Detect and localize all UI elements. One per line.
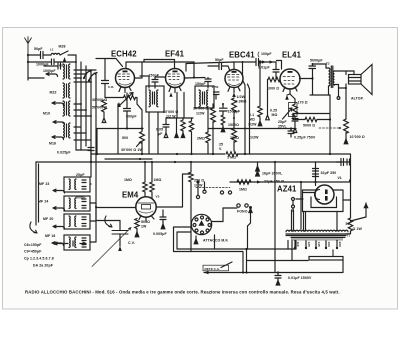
IF transformer 2: [195, 86, 214, 108]
tube ECH42: [116, 69, 135, 93]
node mains junctions: [242, 271, 279, 273]
svg-text:M22: M22: [50, 91, 57, 95]
capacitor 25uF electrolytic: [278, 119, 298, 133]
resistor 50000ohm: [92, 100, 107, 123]
svg-text:300pF: 300pF: [75, 196, 86, 200]
svg-text:100pF: 100pF: [261, 52, 272, 56]
wire EBC41 right vertical: [243, 81, 245, 154]
switch contact arrow 1: [46, 73, 58, 77]
wire T1 primary feed: [300, 182, 302, 229]
tube AZ41: [315, 185, 335, 204]
svg-text:C6=150pF: C6=150pF: [24, 243, 42, 247]
wire EF41 bypass leg: [175, 118, 178, 138]
svg-text:V.: V.: [219, 147, 222, 151]
wire MF block left riser: [36, 162, 39, 225]
resistor 50ohm 1W: [346, 218, 363, 234]
svg-text:50’000 Ω: 50’000 Ω: [92, 106, 107, 110]
switch contact arrow MF23: [53, 189, 65, 193]
svg-text:RETE C.A.: RETE C.A.: [205, 267, 220, 271]
wire MF block right connections: [90, 162, 96, 242]
wire EBC41 anode top rail: [234, 62, 256, 70]
wire fono down: [248, 213, 251, 250]
svg-text:1/2 W: 1/2 W: [166, 115, 176, 119]
wire EL41 anode to T2: [300, 64, 331, 95]
inductor M19 coil: [43, 101, 70, 116]
label 25V: [219, 143, 223, 152]
resistor 250ohm EBC41 cathode: [230, 118, 259, 154]
wire EL41 screen riser: [277, 61, 282, 70]
wire mains cord B: [177, 232, 296, 273]
svg-text:MF 23: MF 23: [39, 182, 49, 186]
svg-text:500pF: 500pF: [126, 115, 137, 119]
capacitor 500pF: [124, 93, 138, 129]
svg-text:M16: M16: [49, 142, 56, 146]
svg-text:1000 Ω: 1000 Ω: [267, 87, 279, 91]
svg-text:T2: T2: [326, 62, 330, 66]
svg-text:C9=450pF: C9=450pF: [24, 250, 42, 254]
switch contact arrow 4: [52, 136, 64, 140]
svg-text:VL: VL: [338, 176, 343, 180]
antenna: [25, 37, 32, 55]
ground arrow ECH42 cathode: [117, 102, 121, 107]
variable capacitor C.V.: [112, 221, 135, 251]
mechanical dashed link fono: [196, 187, 230, 189]
switch rotor curved arrow left: [30, 222, 37, 233]
transformer T1 taps: [294, 241, 342, 250]
svg-text:μF: μF: [158, 132, 163, 136]
svg-text:1MΩ: 1MΩ: [154, 178, 162, 182]
node EBC41 verticals: [222, 103, 235, 119]
svg-text:160: 160: [327, 242, 331, 247]
voltage selector bar: [247, 240, 343, 273]
arrow B+ output: [351, 203, 368, 221]
AZ41 shield box: [303, 190, 344, 212]
svg-text:30’000 Ω: 30’000 Ω: [193, 107, 208, 111]
tube EL41: [280, 69, 300, 94]
capacitor 32+32uF electrolytic: [313, 159, 351, 186]
wire decoupling horizontal: [208, 128, 296, 130]
svg-text:EM4: EM4: [122, 191, 139, 200]
svg-text:EF41: EF41: [165, 50, 185, 59]
IF coil box MF16: [64, 235, 90, 250]
svg-text:T1: T1: [347, 234, 351, 238]
svg-text:125: 125: [307, 242, 311, 247]
switch arrows band selector top: [83, 70, 97, 82]
tube EBC41: [225, 70, 243, 93]
switch contact arrow MF20: [53, 225, 65, 229]
capacitor 0.025uF: [57, 148, 94, 163]
wire right vertical to rectifier: [350, 154, 352, 218]
svg-text:Ω 1W: Ω 1W: [353, 227, 363, 231]
transformer T1 secondary comb: [291, 234, 350, 241]
svg-text:L1: L1: [50, 48, 54, 52]
svg-text:1750: 1750: [212, 85, 219, 89]
wire mains cord A: [174, 227, 244, 273]
tube EF41: [166, 69, 185, 97]
capacitor C.R.: [96, 59, 123, 98]
svg-text:25: 25: [219, 143, 223, 147]
wire socket to chassis: [214, 235, 216, 249]
wire EBC41 diode vertical 2: [248, 84, 250, 154]
wire IF1 secondary return: [149, 112, 158, 154]
node EL41 anode junction: [311, 77, 313, 79]
capacitor 1000pF (second): [43, 63, 65, 73]
wire T2 secondary to speaker: [335, 71, 355, 119]
svg-text:1MΩ: 1MΩ: [124, 178, 132, 182]
svg-text:10’000 Ω: 10’000 Ω: [350, 135, 365, 139]
IF coil box MF24: [64, 196, 90, 211]
svg-text:V3: V3: [156, 195, 160, 199]
wire EM4 cathode left: [96, 207, 136, 209]
wire IF2 secondary down: [207, 108, 209, 132]
resistor 0.1Mohm diode load: [248, 61, 262, 127]
svg-text:220: 220: [338, 242, 342, 247]
resistor 0.3Mohm EBC41: [232, 95, 247, 118]
resistor EF41 screen dropper: [189, 118, 193, 155]
svg-text:EL41: EL41: [282, 51, 302, 60]
svg-text:1 MΩ: 1 MΩ: [227, 156, 236, 160]
wire IF1 primary top: [140, 76, 149, 88]
node decoupling junctions: [212, 128, 246, 130]
trimmer DA arrows: [54, 241, 86, 246]
svg-text:ALTOP.: ALTOP.: [351, 97, 364, 101]
capacitor 150pF: [184, 78, 211, 89]
resistor 1Mohm EM4 grid: [124, 162, 147, 197]
svg-text:150pF: 150pF: [149, 74, 160, 78]
inductor M16 coil: [49, 123, 70, 146]
bus B+ upper: [91, 153, 350, 155]
svg-text:1/2W: 1/2W: [196, 112, 205, 116]
svg-text:0.05: 0.05: [156, 128, 163, 132]
resistor 170ohm: [283, 99, 308, 119]
svg-text:Cp 1.2.3.4.5.6.7.8: Cp 1.2.3.4.5.6.7.8: [24, 257, 54, 261]
svg-text:ECH42: ECH42: [111, 50, 137, 59]
resistor 2Mohm: [197, 132, 210, 154]
wire heater run: [288, 241, 296, 250]
wire AZ41 pins to T1: [292, 200, 351, 231]
inductor L1: [50, 48, 60, 56]
mechanical dashed link: [319, 127, 341, 130]
wire screen rail: [186, 62, 234, 71]
wire ECH42 anode riser: [135, 62, 143, 78]
svg-text:32μF 350: 32μF 350: [321, 171, 337, 175]
svg-text:1MΩ: 1MΩ: [239, 188, 247, 192]
node tone junction: [329, 118, 331, 120]
ground arrow EBC41: [232, 93, 236, 98]
svg-text:170 Ω: 170 Ω: [298, 101, 308, 105]
wire CV feed: [96, 220, 120, 222]
transformer T1 primary: [286, 230, 348, 235]
svg-text:16μF 350VL: 16μF 350VL: [262, 172, 283, 176]
svg-text:25VL: 25VL: [278, 125, 288, 129]
svg-text:EBC41: EBC41: [229, 51, 255, 60]
svg-text:M28: M28: [59, 45, 66, 49]
svg-text:50pF: 50pF: [215, 58, 224, 62]
capacitor 50pF: [28, 47, 51, 59]
capacitor 16uF 350VL: [256, 162, 284, 176]
svg-text:FONO: FONO: [237, 210, 248, 214]
resistor 1Mohm fono: [237, 180, 251, 192]
svg-text:DA 2a 20pF: DA 2a 20pF: [33, 264, 54, 268]
svg-text:30’000 Ω 1W: 30’000 Ω 1W: [121, 148, 143, 152]
resistor 1000ohm EL41 grid: [267, 77, 280, 90]
resistor 0.1Mohm: [193, 104, 215, 154]
capacitor 50pF EBC41: [208, 58, 230, 71]
switch M28: [59, 45, 74, 62]
capacitor 5000pF: [309, 59, 323, 79]
svg-text:MF 16: MF 16: [45, 234, 55, 238]
switch contact arrow MF24: [53, 207, 65, 211]
switch contact arrow 2: [52, 102, 64, 106]
wire rail to EF41 anode: [193, 62, 195, 78]
inductor L2 oscillator coil: [50, 64, 71, 95]
node rectifier cathode: [349, 179, 351, 181]
wire AVC mid segment: [105, 158, 152, 160]
wire top rail A: [126, 62, 194, 69]
capacitor 1500pF: [220, 104, 241, 132]
dial cord diagonal: [92, 228, 131, 267]
wire band switch verticals: [62, 55, 96, 220]
wire ECH42 cathode down: [117, 104, 119, 154]
node antenna junction: [27, 54, 29, 56]
capacitor 0.01uF 1500V: [275, 273, 312, 286]
resistor 1Mohm EM4 target: [150, 162, 162, 198]
svg-text:ATTACCO M.F.: ATTACCO M.F.: [203, 239, 228, 243]
svg-text:110: 110: [296, 242, 300, 247]
switch contact arrow 3: [53, 121, 65, 125]
resistor 5000ohm tone: [293, 114, 330, 128]
svg-text:1/2W: 1/2W: [237, 95, 246, 99]
resistor 1Mohm bus: [225, 152, 238, 160]
IF coil box MF23: [64, 177, 90, 192]
resistor 250ohm 1/2W: [189, 162, 204, 188]
resistor 30000ohm osc: [92, 93, 142, 129]
svg-text:0.25: 0.25: [270, 109, 277, 113]
capacitor 0.005uF EM4: [153, 210, 167, 236]
svg-text:1W: 1W: [141, 225, 147, 229]
svg-text:0.25μF 750V: 0.25μF 750V: [294, 136, 316, 140]
svg-text:25μF: 25μF: [278, 120, 287, 124]
svg-text:0.005μF: 0.005μF: [153, 232, 167, 236]
svg-text:250Ω: 250Ω: [230, 136, 239, 140]
capacitor 100pF: [256, 52, 276, 70]
svg-text:0.025µF: 0.025µF: [57, 151, 71, 155]
jack FONO: [237, 204, 252, 214]
wire EBC41 diode riser: [242, 62, 244, 76]
AZ41 heater terminals: [292, 198, 304, 212]
wire antenna to switch: [28, 78, 44, 80]
capacitor 150pF IF1 grid: [149, 74, 166, 89]
svg-text:150pF: 150pF: [195, 82, 206, 86]
inductor L3 coil: [63, 83, 70, 98]
rail B+ rectified: [230, 181, 351, 183]
svg-text:50: 50: [346, 222, 350, 226]
svg-text:1/2W: 1/2W: [250, 136, 259, 140]
svg-text:2MΩ: 2MΩ: [197, 137, 205, 141]
IF transformer 1: [146, 86, 164, 112]
node bus junctions: [90, 153, 331, 163]
switch RETE C.A.: [203, 262, 232, 271]
svg-text:30’000 Ω: 30’000 Ω: [163, 110, 178, 114]
tube EM4: [136, 195, 160, 222]
svg-text:5000pF: 5000pF: [310, 59, 323, 63]
svg-text:25pF: 25pF: [76, 173, 85, 177]
svg-text:500: 500: [122, 136, 128, 140]
capacitor 0.25uF 750V: [288, 127, 316, 139]
transformer T2: [326, 62, 335, 96]
svg-text:RADIO ALLOCCHIO BACCHINI - M: RADIO ALLOCCHIO BACCHINI - Mod. 516 - On…: [25, 290, 340, 295]
svg-text:5000 Ω: 5000 Ω: [303, 124, 315, 128]
svg-text:M19: M19: [43, 112, 50, 116]
ground arrow socket: [194, 236, 198, 244]
svg-text:MF 20: MF 20: [43, 217, 53, 221]
bus lower: [36, 161, 341, 163]
switch rotor curved arrow mid: [105, 216, 112, 227]
capacitor 0.01uF: [258, 66, 279, 80]
terminal pickup circles: [196, 181, 231, 199]
svg-text:1500pF: 1500pF: [228, 110, 241, 114]
capacitor 0.05uF: [156, 118, 169, 138]
label 0.25Mohm: [266, 80, 278, 120]
potentiometer 10000ohm: [344, 119, 365, 144]
speaker voice coil: [349, 75, 362, 85]
svg-text:MF 24: MF 24: [38, 200, 48, 204]
socket ATTACCO MF: [191, 214, 211, 234]
wire heater feed vertical: [190, 186, 192, 252]
capacitor 1000pF (first): [28, 59, 62, 67]
resistor EF41 cathode bias: [181, 118, 185, 138]
wire top rail B: [144, 60, 175, 69]
ground arrow EL41 cathode: [285, 95, 289, 100]
wire osc feedback: [97, 129, 143, 155]
bus mains bottom: [204, 272, 342, 274]
IF coil box MF20: [64, 214, 90, 229]
speaker cone: [361, 65, 372, 95]
svg-text:50pF: 50pF: [34, 47, 43, 51]
svg-text:30’000 Ω: 30’000 Ω: [92, 98, 107, 102]
svg-text:1000pF: 1000pF: [43, 69, 56, 73]
arrowhead signal right 1: [262, 60, 266, 63]
resistor 500ohm 1W EM4: [135, 219, 150, 237]
resistor 30000ohm 1W screen: [121, 129, 144, 155]
svg-text:MΩ: MΩ: [272, 113, 278, 117]
wire mains verticals: [274, 162, 276, 273]
node 1000pF junction: [27, 61, 29, 63]
switch contact arrow MF16: [52, 242, 64, 246]
svg-text:AZ41: AZ41: [277, 185, 297, 194]
svg-text:500Ω: 500Ω: [141, 220, 150, 224]
svg-text:C.R.: C.R.: [108, 85, 114, 89]
wire EM4 right to bus: [157, 174, 192, 207]
node switch verticals dots: [75, 61, 92, 117]
wire socket to fono riser: [212, 208, 237, 222]
wire antenna lead: [27, 55, 29, 78]
svg-text:C.V.: C.V.: [128, 241, 135, 245]
svg-text:0.01μF 1500V: 0.01μF 1500V: [288, 276, 312, 280]
svg-text:145: 145: [317, 242, 321, 247]
resistor 300000ohm EF41 screen: [163, 93, 193, 119]
wire EL41 cathode split: [287, 94, 295, 99]
arrowhead signal right 2: [270, 60, 274, 63]
wire T2 B+ riser: [329, 95, 331, 154]
